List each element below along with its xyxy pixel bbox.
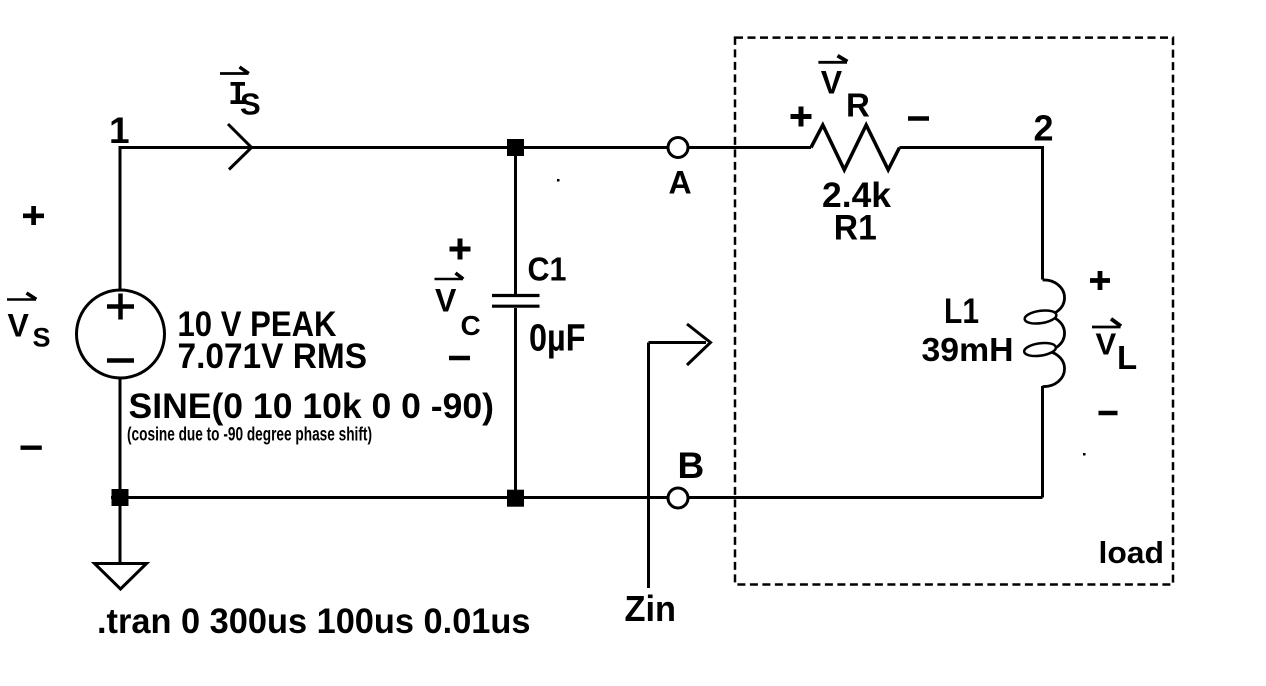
wire inductor bottom vertical (1041, 386, 1044, 498)
svg-text:V: V (435, 283, 457, 319)
IS label serif I (231, 82, 246, 104)
svg-text:S: S (33, 323, 51, 353)
speck dot near inductor (1083, 453, 1086, 456)
svg-text:R: R (846, 87, 870, 124)
svg-text:(cosine due to -90 degree phas: (cosine due to -90 degree phase shift) (127, 424, 372, 445)
Zin arrow vertical line (647, 343, 650, 589)
svg-text:.tran 0 300us 100us 0.01us: .tran 0 300us 100us 0.01us (97, 602, 531, 641)
wire capacitor bottom (514, 308, 517, 498)
svg-text:L: L (1117, 339, 1137, 376)
speck dot near capacitor (557, 179, 560, 182)
junction square bottom left (112, 489, 129, 506)
svg-text:C1: C1 (528, 251, 567, 288)
Zin arrowhead (687, 324, 711, 365)
ground (119, 498, 122, 564)
svg-text:V: V (821, 65, 843, 101)
node A circle (668, 138, 688, 158)
VR label vector arrow (818, 61, 847, 64)
wire top right resistor to node 2 and down (900, 148, 1043, 280)
svg-text:7.071V RMS: 7.071V RMS (178, 337, 368, 376)
plus sign for VS (23, 206, 44, 225)
svg-text:SINE(0 10 10k 0 0 -90): SINE(0 10 10k 0 0 -90) (129, 387, 495, 426)
junction square bottom capacitor (507, 490, 524, 507)
IS label vector arrow (220, 72, 249, 75)
svg-text:0µF: 0µF (529, 318, 586, 360)
plus sign for VR (791, 107, 812, 127)
svg-text:A: A (669, 165, 692, 201)
VL label vector arrow (1092, 326, 1121, 329)
wire bottom horizontal (111, 496, 1043, 499)
svg-text:C: C (461, 310, 481, 341)
inductor L1 loop ellipse upper (1024, 309, 1057, 326)
svg-text:2: 2 (1034, 108, 1054, 149)
wire capacitor top (514, 148, 517, 296)
svg-text:V: V (8, 308, 30, 344)
dashed load box (735, 38, 1173, 585)
junction square top (507, 139, 524, 156)
inductor L1 coil arcs (1043, 280, 1065, 387)
svg-text:1: 1 (109, 110, 130, 151)
current IS arrowhead on top wire (228, 124, 252, 170)
VC label vector arrow (435, 278, 464, 281)
wire left vertical upper (119, 146, 122, 291)
Zin arrow horizontal line (649, 341, 707, 344)
svg-text:B: B (678, 445, 705, 486)
svg-text:Zin: Zin (625, 588, 677, 629)
svg-text:L1: L1 (944, 292, 979, 331)
voltage source minus sign (107, 358, 134, 363)
svg-text:load: load (1099, 535, 1165, 570)
minus sign for VC (449, 356, 470, 361)
voltage source V1 circle (77, 290, 165, 378)
voltage source plus sign (107, 294, 134, 320)
VS label vector arrow (7, 298, 36, 301)
node B circle (668, 488, 688, 508)
svg-text:V: V (1096, 327, 1117, 362)
minus sign for VS (21, 446, 42, 450)
minus sign for VL (1099, 411, 1118, 416)
plus sign for VL (1090, 271, 1110, 290)
plus sign for VC (450, 239, 471, 260)
resistor R1 zigzag (811, 125, 900, 170)
svg-text:S: S (240, 87, 261, 122)
svg-text:39mH: 39mH (922, 331, 1014, 368)
svg-text:R1: R1 (834, 208, 877, 247)
capacitor C1 plates (492, 296, 540, 307)
minus sign for VR (908, 116, 929, 121)
inductor L1 loop ellipse lower (1023, 341, 1056, 358)
wire left vertical lower (119, 378, 122, 498)
wire top left horizontal node1 to junction (120, 146, 811, 149)
